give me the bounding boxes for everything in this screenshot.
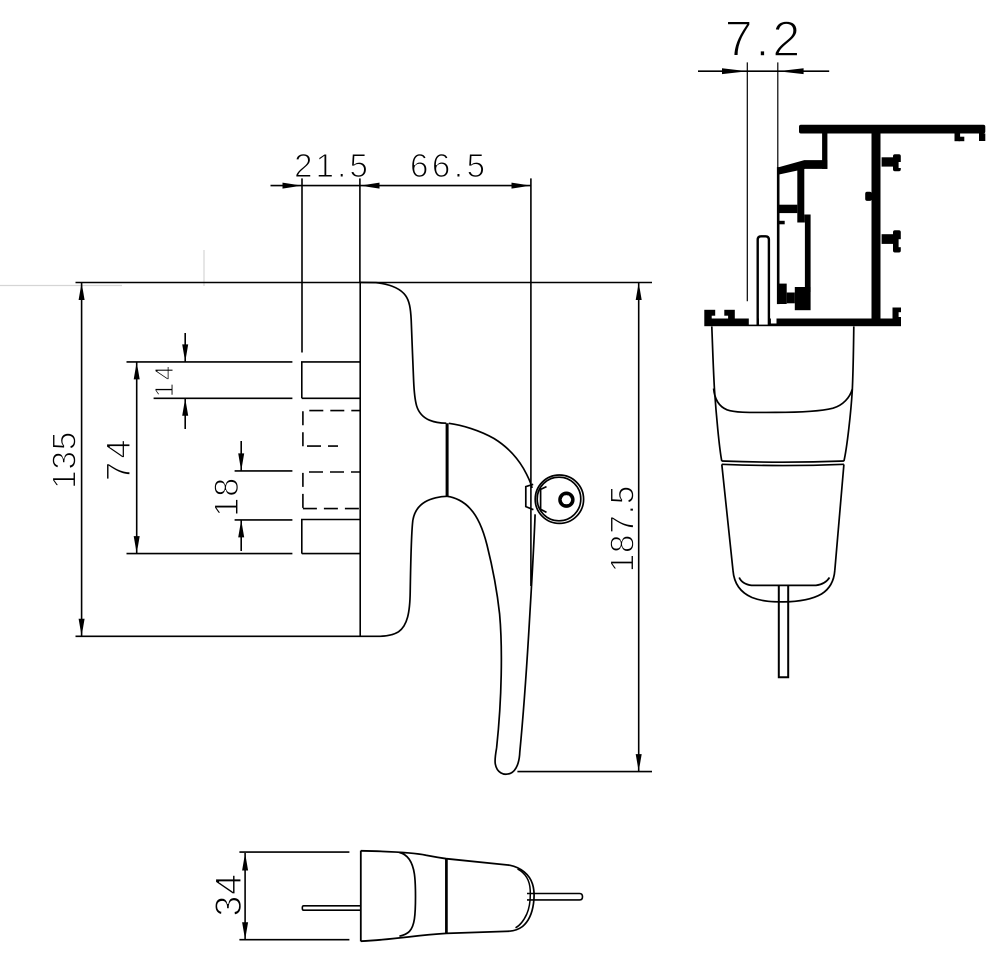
handle upper right curve to lock: [449, 423, 532, 488]
bottom view inner butt arc: [399, 853, 415, 937]
dimension 135 arrow top: [79, 283, 85, 301]
arrow at 360 pointing left: [360, 183, 380, 189]
svg-text:74: 74: [100, 436, 138, 481]
mounting slot lower (solid): [302, 520, 360, 554]
bottom view body top edge: [361, 851, 510, 865]
aluminium profile section (solid black): [704, 125, 985, 326]
dimension 34 arrow bottom: [242, 922, 248, 940]
white cut right of spindle: [771, 319, 777, 324]
profile glazing bar: [822, 134, 827, 169]
profile band: [777, 205, 797, 213]
dimension 187.5 line: [638, 283, 640, 772]
extension line bottom of 187.5: [517, 771, 652, 773]
dimension 18 upper arrow: [240, 441, 242, 471]
profile top bar: [799, 125, 985, 134]
profile block E: [787, 293, 795, 304]
profile left wall: [777, 167, 780, 304]
extension line 18 top: [235, 470, 293, 472]
dimension 135 line: [81, 283, 83, 637]
lock screw hex hole: [562, 496, 572, 504]
dimension 74 arrow bottom: [134, 536, 140, 554]
profile tab A flange: [893, 154, 901, 171]
profile web left nub: [865, 192, 872, 201]
profile bottom left nub 1: [704, 310, 715, 319]
plate bottom with corner, lever left edge: [76, 520, 413, 636]
hidden hole lower (dashed): [303, 472, 360, 509]
svg-text:14: 14: [149, 363, 179, 397]
bottom view taper inner rim arc: [516, 869, 531, 928]
profile top bar hook: [955, 134, 961, 142]
dimension 34 line: [244, 853, 246, 940]
side view right edge: [844, 327, 854, 462]
profile step: [804, 215, 810, 223]
svg-text:187.5: 187.5: [604, 485, 641, 573]
dimension 74 arrow top: [134, 362, 140, 380]
lock cylinder outer ring: [535, 475, 583, 523]
profile main web: [872, 134, 881, 319]
extension line x=302: [301, 178, 303, 352]
extension line 34 bottom: [239, 939, 349, 941]
svg-text:7.2: 7.2: [725, 11, 804, 67]
bottom view body bottom edge: [361, 931, 510, 941]
extension line 7.2 left: [746, 62, 748, 301]
dimension 7.2 line: [698, 70, 829, 72]
lock screw ring: [560, 493, 573, 506]
extension line x=360 (top part above plate): [359, 178, 361, 282]
side view grip right edge: [835, 464, 844, 570]
extension line 14 bottom: [154, 397, 293, 399]
profile tab A stem: [882, 157, 893, 166]
svg-text:18: 18: [208, 477, 246, 517]
lever outline: [495, 514, 535, 774]
profile wall C: [805, 223, 811, 293]
side view grip bottom chord: [739, 578, 829, 586]
extension line 7.2 right: [777, 62, 779, 168]
lock cylinder flat: [541, 487, 547, 513]
dimension 14 lower arrow: [184, 398, 186, 429]
white notch between nubs: [712, 316, 728, 319]
side view joint line 2: [722, 464, 844, 465]
top extension line: [76, 282, 653, 284]
dimension 187.5 arrow top: [636, 283, 642, 301]
profile tab B flange: [893, 230, 901, 252]
profile block F: [795, 287, 811, 310]
extension line 34 top: [239, 851, 349, 853]
profile bottom left nub 2: [724, 310, 735, 319]
spindle in profile: white slot: [759, 237, 769, 325]
mounting slot upper (solid): [302, 362, 360, 398]
side view joint line 1: [722, 461, 844, 462]
plate left edge: [359, 282, 361, 636]
profile bar B: [797, 169, 804, 223]
bottom view plate edge: [360, 851, 362, 942]
dimension 74 line: [136, 362, 138, 554]
white cut left of spindle: [749, 319, 757, 325]
side view grip left edge: [722, 464, 733, 570]
handle top outline: plate top edge, corner and neck: [360, 282, 446, 423]
svg-text:34: 34: [208, 873, 249, 916]
side view grip bottom arc: [733, 571, 835, 602]
side view plate bottom arc: [714, 389, 853, 413]
profile block D: [777, 284, 787, 304]
bottom view spindle: [527, 894, 583, 900]
arrow at 302 pointing right: [283, 183, 303, 189]
bold joint line (front view): [446, 423, 449, 496]
faint construction line vertical: [203, 250, 205, 286]
lever dome left: [413, 496, 447, 520]
dimension 21.5 / 66.5 line: [271, 185, 532, 187]
bottom view left protrusion: [302, 906, 360, 910]
profile tab B stem: [882, 234, 893, 244]
extension line 74 top: [127, 361, 293, 363]
bottom view taper right end outer: [510, 865, 534, 931]
side view spindle: [779, 585, 788, 677]
faint construction line horizontal: [0, 285, 122, 287]
dimension 34 arrow top: [242, 853, 248, 871]
svg-text:135: 135: [46, 431, 83, 489]
lever dome top: [447, 496, 501, 748]
profile bottom bar: [704, 319, 901, 327]
extension line 74 bottom: [127, 553, 293, 555]
arrow at 531 pointing right: [512, 183, 532, 189]
profile top bar right lip: [979, 134, 985, 142]
lock cylinder inner ring: [537, 477, 581, 521]
bottom view bold joint line: [445, 859, 448, 933]
profile slant strip: [779, 160, 827, 174]
lock cylinder tab: [526, 484, 534, 509]
dimension 187.5 arrow bottom: [636, 754, 642, 772]
extension line x=531: [530, 178, 532, 586]
dimension 135 arrow bottom: [79, 619, 85, 637]
spindle outline in profile: [758, 236, 769, 325]
dimension 14 upper arrow: [184, 333, 186, 362]
dimension 18 lower arrow: [240, 520, 242, 551]
dimension 7.2 left arrow: [722, 68, 748, 74]
hidden hole upper (dashed): [303, 411, 360, 447]
svg-text:66.5: 66.5: [410, 147, 489, 184]
profile bottom right flange: [893, 308, 902, 319]
extension line 18 bottom: [235, 519, 293, 521]
dimension 7.2 right arrow: [778, 68, 804, 74]
side view left edge: [712, 327, 722, 462]
profile nub under band: [779, 221, 784, 225]
